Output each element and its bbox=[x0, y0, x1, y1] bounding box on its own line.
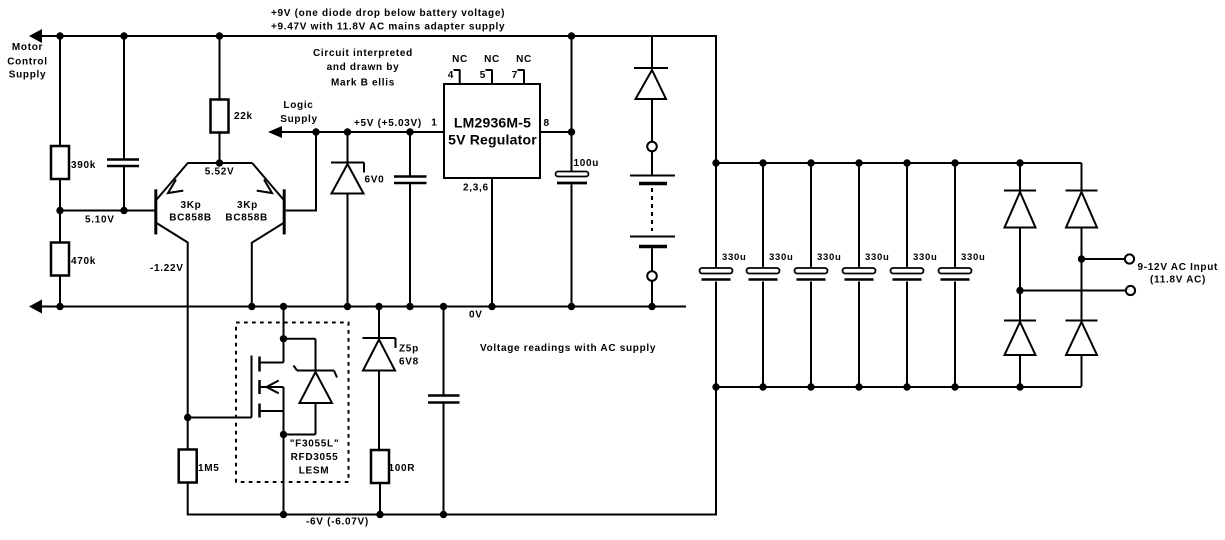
svg-text:330u: 330u bbox=[722, 252, 746, 263]
svg-text:5.10V: 5.10V bbox=[85, 215, 115, 226]
svg-text:NC: NC bbox=[516, 54, 532, 65]
svg-text:330u: 330u bbox=[961, 252, 985, 263]
svg-text:LESM: LESM bbox=[299, 466, 330, 477]
svg-text:Logic: Logic bbox=[283, 100, 313, 111]
svg-text:6V8: 6V8 bbox=[399, 357, 419, 368]
svg-text:390k: 390k bbox=[71, 160, 96, 171]
svg-text:1: 1 bbox=[431, 118, 437, 129]
svg-text:7: 7 bbox=[512, 70, 518, 81]
svg-text:Control: Control bbox=[7, 56, 47, 67]
svg-text:+5V (+5.03V): +5V (+5.03V) bbox=[354, 118, 422, 129]
svg-text:2,3,6: 2,3,6 bbox=[463, 183, 489, 194]
svg-text:"F3055L": "F3055L" bbox=[290, 439, 340, 450]
svg-text:BC858B: BC858B bbox=[225, 213, 268, 224]
svg-text:8: 8 bbox=[544, 118, 550, 129]
svg-text:22k: 22k bbox=[234, 111, 253, 122]
svg-text:-6V (-6.07V): -6V (-6.07V) bbox=[306, 517, 369, 528]
svg-text:+9V (one diode drop below batt: +9V (one diode drop below battery voltag… bbox=[271, 8, 505, 19]
svg-text:Voltage readings with AC suppl: Voltage readings with AC supply bbox=[480, 343, 656, 354]
svg-text:NC: NC bbox=[484, 54, 500, 65]
svg-text:100u: 100u bbox=[574, 158, 600, 169]
svg-text:5V Regulator: 5V Regulator bbox=[448, 132, 537, 148]
svg-text:330u: 330u bbox=[913, 252, 937, 263]
svg-text:BC858B: BC858B bbox=[169, 213, 212, 224]
svg-text:0V: 0V bbox=[469, 310, 483, 321]
svg-text:9-12V AC Input: 9-12V AC Input bbox=[1138, 262, 1219, 273]
svg-text:(11.8V AC): (11.8V AC) bbox=[1150, 275, 1206, 286]
svg-text:4: 4 bbox=[448, 70, 454, 81]
svg-text:3Kp: 3Kp bbox=[181, 200, 202, 211]
svg-text:Mark B ellis: Mark B ellis bbox=[331, 78, 395, 89]
svg-text:Supply: Supply bbox=[9, 70, 47, 81]
svg-text:RFD3055: RFD3055 bbox=[291, 452, 339, 463]
svg-text:3Kp: 3Kp bbox=[237, 200, 258, 211]
svg-text:+9.47V with 11.8V AC mains ada: +9.47V with 11.8V AC mains adapter suppl… bbox=[271, 22, 505, 33]
svg-text:Z5p: Z5p bbox=[399, 344, 419, 355]
svg-text:5: 5 bbox=[480, 70, 486, 81]
svg-text:330u: 330u bbox=[865, 252, 889, 263]
svg-text:Supply: Supply bbox=[280, 114, 318, 125]
svg-text:470k: 470k bbox=[71, 256, 96, 267]
svg-text:1M5: 1M5 bbox=[198, 463, 220, 474]
svg-text:NC: NC bbox=[452, 54, 468, 65]
svg-text:6V0: 6V0 bbox=[365, 175, 385, 186]
svg-text:100R: 100R bbox=[389, 463, 416, 474]
svg-text:330u: 330u bbox=[817, 252, 841, 263]
svg-text:330u: 330u bbox=[769, 252, 793, 263]
svg-text:5.52V: 5.52V bbox=[205, 167, 235, 178]
svg-text:and drawn by: and drawn by bbox=[327, 62, 400, 73]
svg-text:-1.22V: -1.22V bbox=[150, 263, 184, 274]
svg-text:LM2936M-5: LM2936M-5 bbox=[454, 115, 531, 131]
svg-text:Motor: Motor bbox=[12, 42, 43, 53]
svg-text:Circuit interpreted: Circuit interpreted bbox=[313, 48, 413, 59]
